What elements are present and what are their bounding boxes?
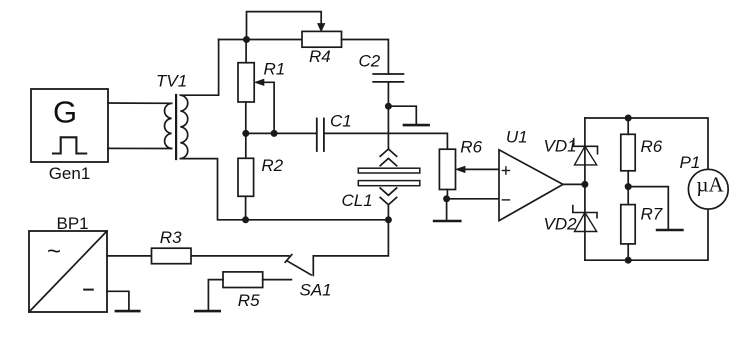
R1 wiper arrow — [255, 79, 264, 85]
wire R6 pot bottom lead — [446, 190, 448, 199]
wire R1 top lead — [245, 40, 247, 63]
svg-text:R6: R6 — [460, 137, 482, 156]
resistor R6 (right divider) — [621, 134, 635, 171]
wire secondary top to top bus — [180, 40, 218, 96]
resistor R7 — [621, 205, 635, 244]
power supply BP1 box — [29, 231, 107, 312]
svg-text:SA1: SA1 — [300, 281, 332, 300]
svg-text:C1: C1 — [330, 112, 352, 131]
U1 minus sign — [502, 199, 509, 201]
wire R4 wiper loop — [247, 12, 322, 40]
wire R7 bottom lead — [627, 244, 629, 260]
ground (BP1) — [116, 310, 139, 313]
node R6-R7 — [625, 183, 632, 190]
wire top bus y39 to R4 left — [219, 39, 302, 41]
svg-text:VD2: VD2 — [544, 214, 578, 233]
svg-text:R4: R4 — [309, 47, 331, 66]
wire R3 to SA1 — [191, 255, 289, 257]
svg-text:TV1: TV1 — [156, 72, 187, 91]
U1 plus sign — [502, 167, 509, 174]
junction node dots — [242, 36, 632, 264]
node bottom bus — [625, 257, 632, 264]
capacitor C1 — [317, 119, 324, 152]
switch SA1 contact tick — [285, 255, 292, 263]
svg-text:R3: R3 — [160, 228, 182, 247]
wire C1 right to R6 pot — [324, 133, 448, 149]
wire ground node to U1 minus input — [447, 198, 499, 200]
wire R6 node to ground — [446, 199, 448, 221]
node top bus — [243, 36, 250, 43]
wire secondary bottom to bottom bus — [180, 159, 245, 220]
node R1-R2 — [242, 130, 249, 137]
node top bus R6 right — [625, 115, 632, 122]
node R2 bottom — [242, 216, 249, 223]
ground (C2 node) — [404, 124, 429, 127]
ground (R6 pot) — [434, 220, 460, 223]
wire bottom bus to CL1 node — [246, 219, 389, 221]
wire R5 left to ground — [208, 280, 223, 311]
resistor R4 (potentiometer) — [302, 31, 342, 47]
wire divider node to ground — [628, 187, 668, 230]
svg-text:R5: R5 — [238, 291, 260, 310]
resistor R2 — [238, 158, 254, 196]
wire CL1 top lead — [387, 106, 389, 149]
ground (divider) — [657, 229, 682, 232]
wire BP1 to ground — [107, 291, 129, 310]
wire CL1 bottom lead — [387, 205, 389, 220]
meter P1 — [688, 169, 728, 209]
wire R6 bottom to R7 top — [627, 171, 629, 205]
wire R4 right to C2 — [342, 40, 389, 75]
svg-text:R2: R2 — [261, 156, 283, 175]
svg-text:P1: P1 — [680, 153, 701, 172]
wire diode branch vertical — [584, 118, 586, 260]
wire R1 bottom lead to R2 top — [245, 102, 247, 158]
transformer TV1 core — [175, 95, 177, 159]
svg-text:R6: R6 — [641, 137, 663, 156]
wire R6 right top lead — [627, 118, 629, 134]
BP1 diagonal — [29, 231, 107, 312]
resistor R5 — [223, 272, 263, 288]
svg-text:BP1: BP1 — [57, 214, 89, 233]
op-amp U1 — [499, 150, 563, 221]
transformer TV1 secondary winding — [180, 95, 187, 158]
node C2 bottom — [385, 103, 392, 110]
resistor R6 (potentiometer at U1 input) — [439, 149, 455, 189]
diode VD1 — [574, 139, 598, 165]
pulse symbol inside Gen1 — [53, 137, 86, 153]
wire R5 right open end — [263, 279, 292, 281]
resistor R3 — [152, 248, 192, 264]
svg-text:R7: R7 — [641, 205, 663, 224]
transformer TV1 primary winding — [165, 103, 172, 148]
wire C1 node left — [246, 132, 317, 134]
switch SA1 blade — [287, 261, 311, 275]
node U1 output — [581, 181, 588, 188]
node R1 wiper on C1 wire — [271, 130, 278, 137]
capacitor C2 — [373, 74, 403, 82]
wire C2 bottom lead — [387, 82, 389, 106]
BP1 dc symbol — [84, 289, 93, 291]
wire bottom bus of meter section — [585, 209, 708, 260]
svg-text:U1: U1 — [506, 128, 528, 147]
diode VD2 — [573, 206, 597, 232]
quartz sensor CL1 — [358, 149, 420, 205]
wire C2 node to ground — [388, 106, 416, 124]
arrowhead onto R4 — [318, 24, 325, 31]
wire Gen1 bottom output to TV1 primary — [108, 147, 172, 149]
node CL1 bottom — [385, 216, 392, 223]
wire U1 output — [563, 183, 585, 185]
wire BP1 to R3 — [107, 255, 152, 257]
svg-text:R1: R1 — [264, 60, 286, 79]
generator G box — [31, 89, 108, 162]
wire CL1 node down to SA1 — [313, 220, 388, 276]
svg-text:µA: µA — [696, 173, 724, 197]
svg-text:VD1: VD1 — [544, 137, 577, 156]
wire Gen1 top output to TV1 primary — [108, 102, 172, 104]
resistor R1 (potentiometer) — [238, 63, 254, 102]
svg-text:G: G — [53, 95, 77, 130]
wire R1 wiper — [263, 82, 275, 133]
svg-text:C2: C2 — [359, 52, 381, 71]
svg-text:CL1: CL1 — [342, 191, 373, 210]
svg-text:Gen1: Gen1 — [49, 164, 91, 183]
wire top bus of meter section — [585, 118, 708, 169]
R6 wiper arrow — [456, 166, 465, 172]
node R6 pot ground — [443, 195, 450, 202]
wire R6 wiper to U1 plus input — [464, 168, 500, 170]
wire R2 bottom lead — [245, 196, 247, 220]
svg-text:~: ~ — [47, 238, 61, 265]
ground (R5) — [195, 310, 219, 313]
